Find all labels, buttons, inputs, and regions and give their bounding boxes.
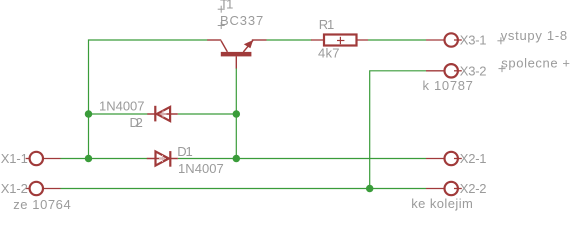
- diode D1 (pointing right): [147, 151, 178, 167]
- svg-text:D2: D2: [130, 115, 144, 130]
- wire top row: corner to T1 collector: [89, 40, 208, 159]
- junction node D1 right: [233, 155, 241, 163]
- svg-text:X1-2: X1-2: [1, 181, 29, 196]
- resistor R1: [311, 35, 368, 46]
- svg-text:X3-2: X3-2: [460, 63, 487, 78]
- wire X3-2 to bottom row: [370, 71, 426, 189]
- svg-text:1N4007: 1N4007: [99, 99, 145, 114]
- svg-text:k 10787: k 10787: [423, 78, 474, 93]
- connector pad X1-1: [26, 152, 61, 165]
- junction node D2 right: [233, 110, 241, 118]
- junction node D2 left: [85, 110, 93, 118]
- svg-text:D1: D1: [177, 144, 193, 159]
- svg-text:R1: R1: [319, 17, 335, 32]
- svg-text:1N4007: 1N4007: [178, 161, 224, 176]
- junction node X2-2 row: [366, 185, 374, 193]
- svg-text:spolecne +: spolecne +: [501, 56, 570, 71]
- wire T1 emitter to R1: [267, 39, 312, 41]
- svg-text:X3-1: X3-1: [460, 33, 487, 48]
- svg-text:BC337: BC337: [220, 13, 264, 28]
- wire D1 to X2-1: [178, 158, 426, 160]
- wire T1 base vertical: [235, 68, 237, 159]
- wire X1-1 to D1: [61, 158, 148, 160]
- diode D2 (pointing left): [147, 106, 178, 122]
- label T1 value origin cross: [218, 22, 225, 29]
- transistor T1: [207, 40, 266, 69]
- junction node X1-1 row: [85, 155, 93, 163]
- connector pad X3-2: [426, 64, 462, 77]
- svg-text:4k7: 4k7: [318, 46, 340, 61]
- label T1 name origin cross: [218, 6, 225, 13]
- svg-text:vstupy 1-8: vstupy 1-8: [501, 28, 568, 43]
- connector pad X2-2: [426, 182, 462, 195]
- connector pad X1-2: [26, 182, 61, 195]
- svg-text:ze 10764: ze 10764: [13, 197, 71, 212]
- wire D2 row right: [178, 113, 237, 115]
- wire D2 row left: [89, 113, 148, 115]
- connector pad X2-1: [426, 152, 462, 165]
- svg-text:X1-1: X1-1: [1, 151, 29, 166]
- wire X1-2 to X2-2: [61, 188, 427, 190]
- svg-text:ke kolejim: ke kolejim: [411, 196, 473, 211]
- wire R1 to X3-1: [368, 39, 426, 41]
- note text vstupy 1-8 origin cross: [497, 37, 504, 44]
- note text spolecne + origin cross: [499, 65, 506, 72]
- svg-text:X2-1: X2-1: [460, 151, 487, 166]
- svg-text:X2-2: X2-2: [460, 181, 487, 196]
- connector pad X3-1: [426, 33, 462, 46]
- svg-text:T1: T1: [220, 0, 234, 12]
